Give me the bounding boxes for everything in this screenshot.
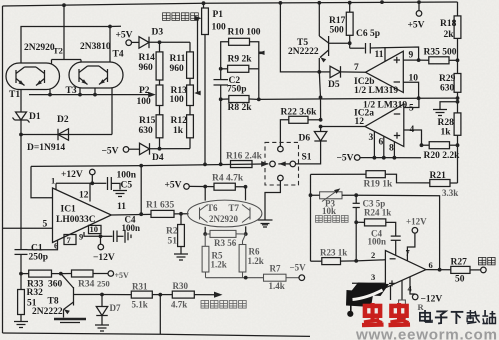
svg-text:1: 1 <box>51 176 55 186</box>
pin 7 box (IC1) <box>64 235 76 245</box>
svg-text:R34: R34 <box>78 280 95 290</box>
svg-text:R11: R11 <box>170 54 186 64</box>
pin 11 (IC2b) <box>384 47 386 62</box>
watermark graduation cap <box>349 283 389 297</box>
svg-text:R: R <box>418 302 425 312</box>
pin 7 wire (IC3) <box>407 233 415 261</box>
wire R22 left to S1 top <box>280 120 288 146</box>
diode D4 <box>129 148 140 150</box>
svg-text:2N2920: 2N2920 <box>24 43 55 53</box>
potentiometer P2 <box>159 80 161 85</box>
transistor T3 <box>78 69 80 82</box>
resistor R28 <box>454 113 461 135</box>
svg-text:11: 11 <box>117 202 126 212</box>
resistor R30 <box>172 291 194 298</box>
diode D5 <box>319 71 330 73</box>
resistor R4 <box>214 183 235 190</box>
wire lower bus / IC1 feedback <box>31 164 268 167</box>
svg-text:630: 630 <box>440 84 455 94</box>
resistor R14 <box>159 42 161 52</box>
svg-text:3: 3 <box>371 272 375 282</box>
svg-text:2N2222: 2N2222 <box>288 47 319 57</box>
ground below R32 <box>14 321 28 323</box>
pin 1 stub (IC1) <box>55 183 57 189</box>
svg-text:1.4k: 1.4k <box>269 281 285 291</box>
svg-text:+5V: +5V <box>165 180 182 190</box>
wire T6/T7 collector stubs <box>204 187 206 201</box>
svg-text:2N2222: 2N2222 <box>32 307 63 317</box>
resistor R19 <box>366 171 385 178</box>
op-amp IC1 LH0033 <box>53 188 112 243</box>
+5V terminal (middle) <box>184 184 190 190</box>
svg-text:750p: 750p <box>227 85 247 95</box>
resistor R16 <box>231 161 253 168</box>
svg-text:3: 3 <box>369 133 374 143</box>
resistor R11 <box>189 42 191 52</box>
resistor R9 <box>228 65 249 72</box>
resistor R18 <box>454 16 461 39</box>
svg-text:6: 6 <box>54 241 58 251</box>
resistor R15 <box>159 106 161 115</box>
svg-text:50: 50 <box>455 275 465 285</box>
label 触发器输出 (trigger output) <box>201 301 209 309</box>
resistor R1 <box>151 210 174 217</box>
resistor R34 <box>72 270 94 277</box>
pin 8 stub <box>393 142 395 158</box>
svg-text:5.1k: 5.1k <box>132 300 148 310</box>
svg-text:360: 360 <box>48 280 63 290</box>
svg-text:T7: T7 <box>229 203 240 213</box>
wire oval ground stub <box>262 224 268 226</box>
svg-text:R7: R7 <box>270 264 281 274</box>
wire S1 bottom to ground <box>265 181 280 220</box>
wire C3 rail to R23 row <box>355 222 357 261</box>
svg-text:R4 4.7k: R4 4.7k <box>212 174 244 184</box>
wire +5V to R4 <box>189 185 214 187</box>
wire -5V bus <box>360 157 421 159</box>
transistor T5 2N2222 <box>318 3 320 36</box>
wire emitter stubs to R3 <box>204 227 206 234</box>
svg-text:T2: T2 <box>53 46 63 56</box>
pin 5 wire (IC1) <box>3 227 53 229</box>
wire P1 bottom rail <box>204 35 206 165</box>
svg-text:R3 56: R3 56 <box>214 238 237 248</box>
op-amp IC2b 1/2 LM319 <box>366 51 404 92</box>
svg-text:8: 8 <box>389 144 394 154</box>
wire R23 to IC3 - input <box>356 260 385 261</box>
label 输出偏置 <box>316 216 323 223</box>
svg-text:−12V: −12V <box>421 295 443 305</box>
svg-text:D1: D1 <box>29 112 41 122</box>
capacitor C3 5p <box>355 195 357 203</box>
svg-text:R30: R30 <box>173 281 189 291</box>
wire emitter bus below ovals <box>29 94 153 96</box>
svg-text:100: 100 <box>212 23 227 33</box>
svg-text:51: 51 <box>168 237 178 247</box>
dual transistor T3 T4 (2N3810) oval <box>69 62 123 88</box>
resistor R12 <box>189 106 191 115</box>
diode D3 <box>132 41 140 43</box>
svg-text:R27: R27 <box>451 258 468 268</box>
resistor R32 <box>20 274 22 290</box>
ground below T8 emitter <box>54 318 86 321</box>
svg-text:500: 500 <box>330 26 345 36</box>
svg-text:D4: D4 <box>152 153 164 163</box>
pin 10 wire (IC2b -) <box>403 82 418 98</box>
ground at R28 top <box>433 109 447 111</box>
svg-text:R32: R32 <box>27 288 44 298</box>
capacitor C1 250p <box>20 135 22 250</box>
svg-text:+12V: +12V <box>406 217 427 227</box>
wire R24 right to C4 <box>386 222 396 236</box>
svg-text:R22 3.6k: R22 3.6k <box>281 108 318 118</box>
wire IC3 + input left <box>352 282 385 284</box>
op-amp IC3 <box>385 251 426 288</box>
pin 6 stub <box>383 137 385 158</box>
ground (S1 / current source) <box>258 219 273 221</box>
svg-text:−5V: −5V <box>290 263 307 273</box>
right supply rail <box>457 2 459 16</box>
capacitor C5 100n <box>92 182 106 184</box>
diode D6 <box>314 132 327 142</box>
svg-text:100: 100 <box>170 95 185 105</box>
pin 1 stub (IC3) <box>401 280 403 300</box>
svg-text:9: 9 <box>79 232 83 242</box>
diode D2 <box>58 129 69 141</box>
+5V terminal (top right) <box>416 11 422 17</box>
svg-text:1k: 1k <box>441 128 452 138</box>
resistor R7 <box>264 274 287 281</box>
wire P3 left <box>311 194 320 196</box>
pin 6 stub (IC1) <box>28 241 58 250</box>
watermark 电子下载站 text <box>420 310 496 324</box>
resistor R17 <box>349 3 351 13</box>
svg-text:−5V: −5V <box>102 147 119 157</box>
op-amp IC2a 1/2 LM319 <box>365 104 404 146</box>
dual transistor T6 T7 (2N2920) oval <box>188 200 262 227</box>
wire feedback down to IC1 pin1 loop <box>31 166 53 197</box>
svg-text:+5V: +5V <box>116 31 133 41</box>
svg-text:R17: R17 <box>329 16 346 26</box>
wire T1 emitter to D1 <box>20 90 22 113</box>
wire R5/R6 bottom bus <box>205 272 207 278</box>
svg-text:R15: R15 <box>139 116 156 126</box>
resistor R35 <box>429 57 449 64</box>
svg-text:R29: R29 <box>439 74 456 84</box>
svg-text:T1: T1 <box>9 90 20 100</box>
capacitor C2 <box>214 79 229 81</box>
svg-text:1.2k: 1.2k <box>248 256 264 266</box>
svg-text:IC1: IC1 <box>61 205 77 215</box>
vertical x310 rail <box>310 174 312 261</box>
wire R10 left to C2 rail <box>221 42 229 79</box>
resistor R3 <box>210 230 236 237</box>
frame left border <box>2 6 4 333</box>
svg-text:5: 5 <box>409 104 414 114</box>
wire +12V row <box>56 182 92 184</box>
wire D3 to ladder <box>149 41 190 43</box>
svg-text:12: 12 <box>355 117 365 127</box>
wire C1 rail to R33 row <box>19 272 23 276</box>
+12V terminal (IC1) <box>90 169 96 175</box>
diode D7 <box>101 295 103 307</box>
ground below R2 <box>180 247 182 254</box>
wire D1 to D2 row <box>20 120 22 135</box>
svg-text:D=1N914: D=1N914 <box>27 143 65 153</box>
resistor R23 <box>311 260 322 262</box>
svg-text:C5: C5 <box>121 181 133 191</box>
transistor T1 <box>15 70 17 83</box>
svg-text:www.eeworm.com: www.eeworm.com <box>355 327 498 340</box>
svg-text:+5V: +5V <box>408 21 425 31</box>
svg-text:10: 10 <box>90 224 99 234</box>
wire bootstrap C5 to output <box>140 166 142 215</box>
wire D5 to IC2b output <box>341 71 366 73</box>
svg-text:10k: 10k <box>322 206 336 216</box>
resistor R6 <box>243 234 246 245</box>
svg-text:7: 7 <box>354 63 359 73</box>
dual transistor T1 T2 (2N2920) oval <box>6 63 60 90</box>
svg-text:R35 500: R35 500 <box>424 48 457 58</box>
arrow trigger output <box>214 292 223 298</box>
svg-text:+5V: +5V <box>115 271 130 280</box>
svg-text:100n: 100n <box>117 171 137 181</box>
wire C2 rail to lower bus <box>220 99 222 164</box>
wire left vertical to T5 emitter bus <box>280 3 319 72</box>
svg-text:R20 2.2k: R20 2.2k <box>424 151 461 161</box>
capacitor C4 100n (IC3) <box>391 235 401 237</box>
pin 9 stub (IC1) <box>84 232 101 236</box>
wire P3 right / feedback bus to IC3 output <box>342 195 440 270</box>
pin 12 stub (IC1) <box>89 183 91 201</box>
wire R19 to R21 <box>385 174 430 183</box>
transistor T7 <box>249 208 251 220</box>
pin 10 box (IC1) <box>89 225 102 233</box>
output wire IC3 <box>426 269 451 271</box>
svg-text:D7: D7 <box>110 303 121 313</box>
transistor T2 <box>44 70 46 83</box>
svg-text:D5: D5 <box>328 80 340 90</box>
resistor R21 <box>430 180 450 187</box>
svg-text:10: 10 <box>409 74 419 84</box>
svg-text:R24 1k: R24 1k <box>364 208 391 218</box>
arrow into S1 <box>261 161 269 167</box>
svg-text:2N2920: 2N2920 <box>209 214 238 224</box>
svg-text:T6: T6 <box>207 203 218 213</box>
-5V terminal (R7) <box>299 275 305 281</box>
svg-text:D2: D2 <box>57 115 69 125</box>
diode D1 <box>16 112 27 120</box>
resistor R20 <box>429 142 449 149</box>
potentiometer P1 <box>203 3 205 8</box>
svg-text:4: 4 <box>410 125 415 135</box>
svg-text:T8: T8 <box>48 297 59 307</box>
svg-text:2: 2 <box>371 250 375 260</box>
transistor T6 <box>199 208 201 220</box>
svg-text:R23 1k: R23 1k <box>320 248 347 258</box>
wire R19 row <box>311 173 367 175</box>
switch S1 wiper arrow <box>278 163 290 165</box>
svg-text:960: 960 <box>139 63 154 73</box>
wire R9/R10 right join <box>250 42 259 100</box>
svg-text:+12V: +12V <box>61 170 83 180</box>
svg-text:R28: R28 <box>438 118 455 128</box>
svg-text:R10 100: R10 100 <box>228 28 261 38</box>
svg-text:6: 6 <box>379 138 384 148</box>
svg-text:250: 250 <box>97 279 110 289</box>
pin 5 stub (IC3) <box>390 286 392 301</box>
+5V terminal (left) <box>126 40 132 46</box>
svg-text:2N3810: 2N3810 <box>80 42 111 52</box>
svg-text:R18: R18 <box>440 19 457 29</box>
svg-text:12: 12 <box>79 191 89 201</box>
frame / top supply rail <box>3 2 458 6</box>
svg-text:9: 9 <box>409 51 414 61</box>
node: top rail junctions <box>62 3 66 7</box>
watermark 虫 character 2 <box>388 303 410 325</box>
resistor R5 <box>204 234 206 246</box>
svg-text:R8 2k: R8 2k <box>228 103 253 113</box>
resistor R10 <box>229 38 250 45</box>
watermark 虫 character 1 <box>362 303 384 325</box>
switch S1 dashed box <box>265 142 299 185</box>
label 输出 (output) <box>479 258 486 265</box>
capacitor C4 100n (IC1 output) <box>101 235 113 237</box>
svg-text:1.2k: 1.2k <box>211 260 227 270</box>
+5V terminal (T8) <box>108 271 114 277</box>
svg-text:R21: R21 <box>430 171 447 181</box>
svg-text:−12V: −12V <box>93 253 115 263</box>
potentiometer P3 box <box>320 192 342 199</box>
potentiometer R13 <box>189 78 191 85</box>
svg-text:100n: 100n <box>122 223 141 233</box>
svg-text:C6 5p: C6 5p <box>356 29 380 39</box>
wire upper loop to T1/T4 tops <box>21 27 110 64</box>
pin 5 wire (IC2a -) <box>404 98 419 107</box>
svg-text:D3: D3 <box>152 28 164 38</box>
svg-text:250p: 250p <box>29 253 49 263</box>
ground below D7 <box>95 324 109 326</box>
svg-text:3.3k: 3.3k <box>442 188 458 198</box>
svg-text:100: 100 <box>137 97 152 107</box>
+12V terminal (IC3) <box>412 228 418 234</box>
svg-text:2k: 2k <box>444 30 455 40</box>
wire T5 base to R17 node <box>329 42 350 44</box>
resistor R2 <box>180 214 182 225</box>
switch S1 contacts <box>278 146 284 152</box>
resistor R27 <box>451 266 470 273</box>
output terminal <box>481 267 487 273</box>
capacitor C6 5p <box>350 47 365 49</box>
wire D2 row <box>21 134 112 136</box>
svg-text:11: 11 <box>375 50 384 60</box>
pin 9 wire (IC2b +) <box>403 59 418 61</box>
svg-text:P1: P1 <box>213 10 224 20</box>
svg-text:1/2 LM319: 1/2 LM319 <box>354 86 398 96</box>
svg-text:T4: T4 <box>113 50 124 60</box>
svg-text:R1 635: R1 635 <box>146 201 174 211</box>
svg-text:1k: 1k <box>173 126 184 136</box>
wiper wire P1 to R13 <box>196 18 199 93</box>
resistor R25 (partially hidden) <box>399 300 406 318</box>
resistor R29 <box>454 74 461 93</box>
-5V terminal (left) <box>123 147 129 153</box>
label 频率调节 (frequency adjust) <box>163 13 171 21</box>
svg-text:630: 630 <box>139 126 154 136</box>
transistor T4 <box>107 69 109 82</box>
svg-text:6: 6 <box>429 260 433 270</box>
svg-text:5: 5 <box>43 220 48 230</box>
wire R30/R31 node to bottom rail <box>159 295 161 335</box>
pin 11 / output wire (IC1) <box>111 213 151 216</box>
wire R22 right to D6 rail <box>308 119 321 121</box>
svg-text:P2: P2 <box>139 86 150 96</box>
svg-text:D6: D6 <box>299 134 311 144</box>
wiper arrow on R9 feedback <box>259 51 265 54</box>
svg-text:960: 960 <box>170 64 185 74</box>
svg-text:R9 2k: R9 2k <box>228 55 253 65</box>
pin 3 stub <box>373 132 375 158</box>
wire D4 row <box>150 148 191 150</box>
pin 4 wire (IC2a +) <box>404 130 422 145</box>
frame bottom border <box>3 333 311 336</box>
svg-text:S1: S1 <box>302 153 312 163</box>
wire long bus R8 to right rail <box>249 98 458 99</box>
svg-text:R12: R12 <box>171 116 188 126</box>
wire D6 rail <box>319 72 320 98</box>
resistor R31 <box>102 294 131 296</box>
svg-text:4.7k: 4.7k <box>171 300 187 310</box>
resistor R24 <box>356 221 364 223</box>
-12V terminal (IC3) <box>412 294 418 300</box>
resistor R33 <box>21 273 29 275</box>
pin 4 wire (IC3) <box>410 277 415 294</box>
-12V terminal (IC1) <box>100 236 102 244</box>
svg-text:R2: R2 <box>166 227 178 237</box>
svg-text:R6: R6 <box>249 247 260 257</box>
svg-text:−5V: −5V <box>337 154 354 164</box>
svg-text:R16 2.4k: R16 2.4k <box>226 152 263 162</box>
wire T2/T3 top feed from rail <box>63 5 65 59</box>
-5V terminal (middle) <box>354 155 360 161</box>
transistor T8 2N2222 <box>61 274 74 288</box>
resistor R8 <box>229 96 249 103</box>
wire D6 to S1 right <box>296 141 321 164</box>
svg-text:100n: 100n <box>368 237 387 247</box>
resistor R22 <box>289 116 308 123</box>
svg-text:R19 1k: R19 1k <box>364 180 393 190</box>
svg-text:R31: R31 <box>132 282 148 292</box>
svg-text:R14: R14 <box>139 53 156 63</box>
